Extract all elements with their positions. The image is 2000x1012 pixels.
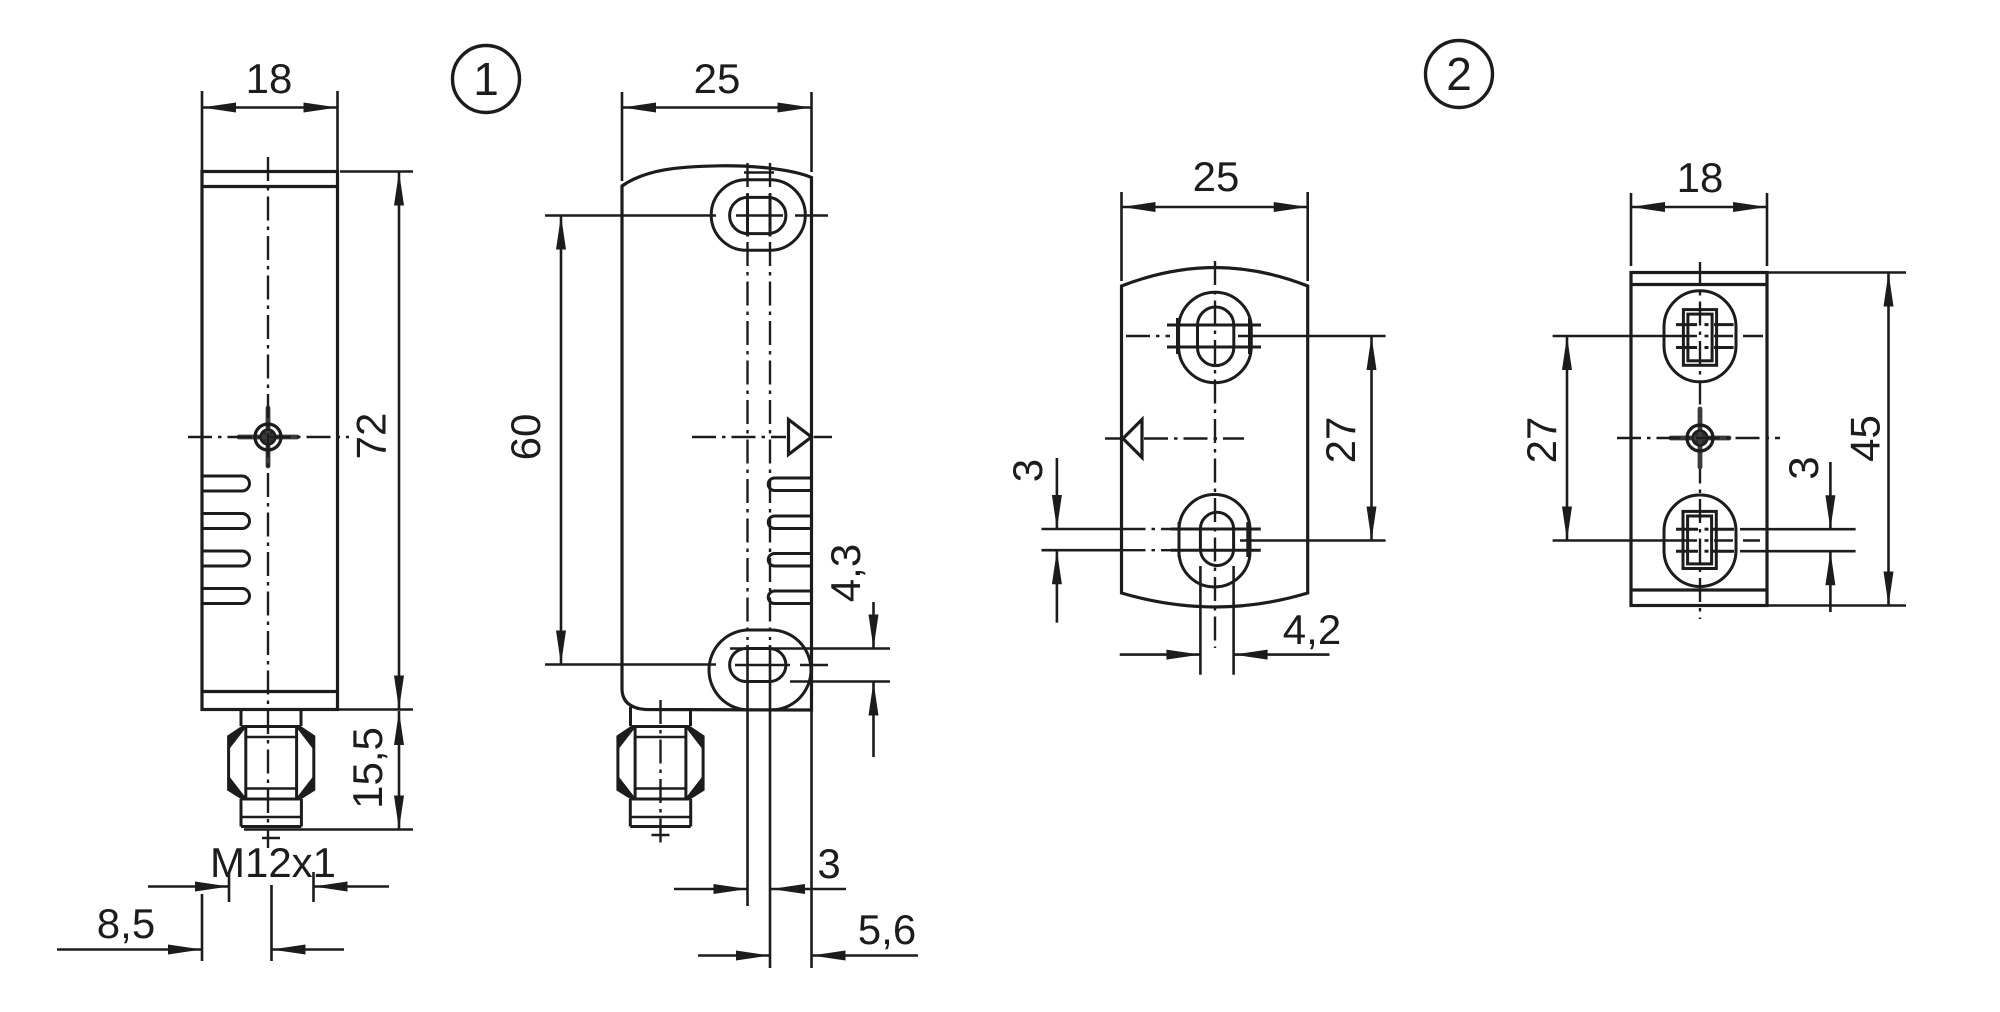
fig2 sensor body front view outline [622, 166, 812, 710]
fig3 lower hole center ticks [1171, 528, 1261, 531]
svg-text:4,3: 4,3 [822, 544, 869, 602]
fig2 dimension 5,6 bottom [810, 710, 813, 968]
fig3 top hole slot [1198, 307, 1234, 366]
fig2 top hole horizontal centerline / 60 ext [545, 214, 716, 217]
fig1 dimension 15,5 [244, 828, 413, 831]
svg-text:4,2: 4,2 [1283, 606, 1341, 653]
fig3 3-dim ext lines left [1042, 528, 1122, 531]
svg-text:8,5: 8,5 [97, 900, 155, 947]
fig4 dimension 18 top [1630, 193, 1633, 266]
fig4 lower hole horizontal centerline / 27 ext [1553, 539, 1697, 542]
fig1 dimension 72 right [340, 170, 413, 173]
fig3 dimension 25 top [1120, 192, 1123, 281]
fig2 dimension 25 top [621, 92, 624, 181]
fig4 lower screw outer rect [1683, 511, 1716, 568]
fig2 slot vertical centerlines [746, 163, 748, 640]
fig1 sensor body side view outline [202, 172, 338, 710]
fig4 top screw inner rect [1688, 314, 1712, 361]
fig3 top hole horizontal centerline [1126, 335, 1170, 337]
svg-text:5,6: 5,6 [858, 906, 916, 953]
fig3 dimension 4,2 bottom [1199, 566, 1202, 675]
fig2 dimension 4,3 [730, 647, 890, 650]
svg-text:18: 18 [1677, 154, 1724, 201]
fig4 top hole horizontal centerline / 27 ext [1553, 335, 1697, 338]
fig1 vertical centerline [267, 157, 269, 848]
svg-text:72: 72 [348, 413, 395, 460]
svg-text:3: 3 [817, 840, 840, 887]
fig4 lower screw inner rect [1688, 516, 1712, 564]
fig4 top screw outer rect [1683, 310, 1716, 366]
fig2 lower hole boss [709, 630, 811, 710]
fig1 dimension 18 top [201, 91, 204, 171]
fig3 dimension 3 left [1056, 458, 1059, 529]
fig4 horizontal centerline [1617, 437, 1780, 439]
fig2 top hole center ticks [746, 194, 749, 237]
fig2 connector centerline [659, 700, 661, 845]
fig2 optical axis centerline [692, 436, 786, 438]
fig3 bracket body outline [1122, 268, 1308, 608]
fig3 lower hole boss [1179, 495, 1250, 588]
fig1 dimension 8,5 [201, 894, 204, 961]
fig1 mounting slots left side [202, 476, 249, 491]
fig2 top parting line [744, 171, 774, 174]
fig1 bottom cap line [202, 690, 338, 693]
fig3 top hole center ticks [1167, 324, 1261, 327]
fig2 connector hex nut and thread [618, 727, 703, 800]
fig4 lens crosshair mark [1671, 409, 1729, 467]
fig2 top hole boss [711, 180, 805, 251]
fig2 lower hole horizontal centerline / 60 ext [545, 663, 716, 666]
svg-text:60: 60 [502, 414, 549, 461]
fig4 bracket body outline [1631, 273, 1767, 606]
fig4 lower hole tick lines [1676, 528, 1698, 531]
fig4 bottom cap line [1631, 588, 1767, 591]
fig4 lower hole boss [1664, 495, 1736, 587]
fig4 top hole boss [1664, 291, 1736, 382]
fig2 M12 connector neck [629, 707, 632, 726]
svg-text:3: 3 [1004, 459, 1051, 482]
fig2 dimension 3 bottom [674, 888, 748, 891]
fig3 dimension 27 right [1370, 336, 1373, 541]
svg-text:27: 27 [1317, 417, 1364, 464]
fig1 horizontal centerline [188, 436, 349, 438]
label circle 1 [453, 46, 520, 113]
svg-text:1: 1 [473, 53, 499, 105]
svg-text:2: 2 [1446, 48, 1472, 100]
fig1 dimension M12 thread [228, 872, 231, 902]
fig3 lower hole slot [1200, 512, 1233, 565]
fig2 optical axis triangle [789, 420, 812, 455]
fig3 lower hole horizontal centerline [1240, 539, 1386, 542]
fig2 vent slots right side [768, 478, 811, 491]
fig4 top cap line [1631, 283, 1767, 286]
fig2 lower hole slot [730, 649, 786, 682]
fig4 dimension 3 right [1740, 528, 1856, 531]
fig1 lens crosshair mark [239, 408, 297, 466]
fig2 dimension 60 left [560, 216, 563, 665]
fig4 vertical centerline [1699, 262, 1701, 619]
svg-text:18: 18 [246, 55, 293, 102]
fig4 dimension 45 right [1767, 271, 1906, 274]
svg-text:27: 27 [1518, 417, 1565, 464]
fig4 top hole tick lines [1676, 323, 1697, 326]
fig1 connector hex nut and thread [229, 727, 314, 800]
svg-text:25: 25 [1193, 153, 1240, 200]
fig3 top hole boss [1179, 292, 1252, 383]
label circle 2 [1426, 41, 1493, 108]
svg-text:3: 3 [1780, 456, 1827, 479]
fig3 vertical centerline [1214, 261, 1216, 648]
fig4 dimension 27 left [1551, 335, 1554, 338]
fig2 top hole slot [730, 197, 786, 233]
svg-text:25: 25 [694, 55, 741, 102]
fig3 optical axis triangle [1123, 420, 1142, 458]
svg-text:15,5: 15,5 [344, 727, 391, 809]
fig3 optical axis centerline [1105, 437, 1122, 439]
svg-text:45: 45 [1842, 415, 1889, 462]
fig1 M12 connector neck [240, 710, 243, 727]
fig1 connector end tick [262, 837, 280, 840]
fig1 top cap line [202, 185, 338, 188]
